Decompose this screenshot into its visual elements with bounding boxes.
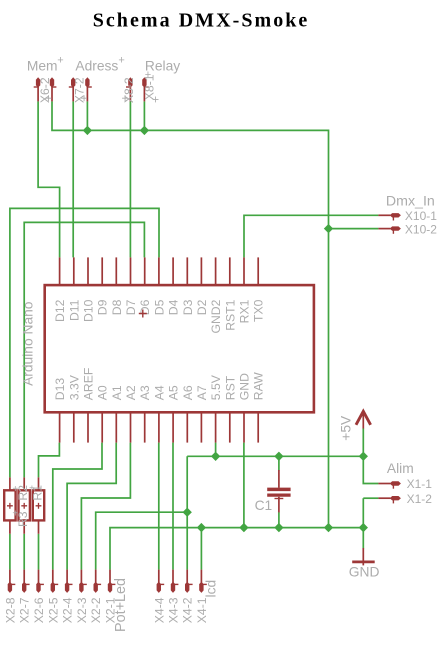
connector pin X2-6 <box>36 570 44 593</box>
connector pin X4-4 <box>157 570 165 593</box>
wire C1 top lead <box>278 456 280 470</box>
svg-text:D7: D7 <box>124 299 138 315</box>
svg-text:X2-8: X2-8 <box>3 597 17 623</box>
svg-text:Adress: Adress <box>75 58 118 73</box>
svg-text:3.3V: 3.3V <box>67 374 81 400</box>
svg-text:+: + <box>118 95 132 102</box>
connector pin X4-3 <box>171 570 179 593</box>
svg-text:X1-2: X1-2 <box>407 492 433 506</box>
svg-text:+5V: +5V <box>338 415 353 441</box>
wire X10-2 to rail <box>329 228 379 230</box>
wire R3 bottom to X2-8 <box>9 534 11 570</box>
Arduino Nano top pins <box>60 257 259 285</box>
svg-text:X2-2: X2-2 <box>89 597 103 623</box>
svg-text:X4-3: X4-3 <box>167 597 181 623</box>
svg-text:+: + <box>57 54 63 66</box>
junction right vertical-rail <box>324 523 333 532</box>
svg-text:X10-1: X10-1 <box>405 209 437 223</box>
svg-text:Mem: Mem <box>27 58 58 73</box>
svg-text:X2-6: X2-6 <box>32 597 46 623</box>
connector pin X2-8 <box>8 570 16 593</box>
svg-text:AREF: AREF <box>82 368 96 401</box>
svg-text:GND: GND <box>349 564 380 579</box>
svg-text:RX1: RX1 <box>238 299 252 323</box>
connector pin X2-5 <box>51 570 59 593</box>
resistor R1 <box>33 477 44 533</box>
Arduino Nano bottom pin labels <box>53 368 266 401</box>
wire 5.5V pin to +5V line <box>215 443 217 457</box>
junction rail-X8-1 <box>140 126 149 135</box>
junction C1 top <box>274 452 283 461</box>
svg-text:X4-4: X4-4 <box>152 597 166 623</box>
svg-text:5.5V: 5.5V <box>209 374 223 400</box>
wire C1 bottom lead <box>278 512 280 527</box>
resistor R3 <box>4 477 15 533</box>
wire R3 to D5 <box>10 208 159 477</box>
connector pin X8-1 <box>142 77 146 101</box>
connector pin X4-2 <box>185 570 193 593</box>
connector pin X7-1 <box>71 77 75 101</box>
svg-text:X2-7: X2-7 <box>18 597 32 623</box>
connector pin X1-1 <box>378 481 401 488</box>
Arduino Nano bottom pins <box>60 412 259 442</box>
svg-text:GND: GND <box>238 373 252 400</box>
svg-text:+: + <box>12 484 18 495</box>
connector pin X2-3 <box>79 570 87 593</box>
svg-text:A5: A5 <box>167 385 181 400</box>
svg-text:A7: A7 <box>195 385 209 400</box>
svg-text:D9: D9 <box>96 299 110 315</box>
wire D13 to R1 <box>39 443 60 478</box>
connector pin X10-2 <box>378 226 401 233</box>
wire X8-1 to rail <box>143 101 145 130</box>
svg-text:+: + <box>149 96 163 103</box>
svg-text:X2-3: X2-3 <box>75 597 89 623</box>
svg-text:X4-1: X4-1 <box>195 597 209 623</box>
op-amp U1 Arduino Nano body <box>45 285 314 412</box>
wire R2 to D6 <box>24 222 144 477</box>
connector pin X2-7 <box>22 570 30 593</box>
svg-text:RST: RST <box>223 375 237 400</box>
wire +5V to X1-1 <box>363 456 378 483</box>
junction rail-Adress2 <box>83 126 92 135</box>
connector pin X2-1 <box>108 570 116 593</box>
svg-text:A3: A3 <box>138 385 152 400</box>
wire +5V column to X4-2 <box>186 456 188 569</box>
svg-text:X2-4: X2-4 <box>61 597 75 623</box>
svg-text:+: + <box>12 509 18 520</box>
svg-text:RAW: RAW <box>252 372 266 400</box>
svg-text:D11: D11 <box>67 299 81 321</box>
svg-text:A0: A0 <box>96 385 110 400</box>
svg-text:A6: A6 <box>181 385 195 400</box>
connector pin X10-1 <box>378 213 401 220</box>
svg-text:C1: C1 <box>255 498 273 513</box>
connector pin X4-1 <box>199 570 207 593</box>
wire A5 to X4-3 <box>172 443 174 570</box>
junction X10-2 <box>324 224 333 233</box>
+5V supply symbol <box>356 411 371 428</box>
svg-text:TX0: TX0 <box>252 299 266 322</box>
wire GND pin to bottom rail <box>243 443 245 528</box>
wire RX1 to X10-1 <box>244 215 378 257</box>
Arduino Nano top pin labels <box>53 299 266 333</box>
junction GND pin <box>239 523 248 532</box>
junction +5V <box>359 452 368 461</box>
connector pin X2-2 <box>94 570 102 593</box>
svg-text:D2: D2 <box>195 299 209 315</box>
wire Adress pin2 to rail <box>86 101 88 130</box>
svg-text:D5: D5 <box>152 299 166 315</box>
wire Mem pin1 to D12 <box>38 101 60 257</box>
svg-text:D10: D10 <box>82 299 96 322</box>
wire X2-2 to +5V column <box>96 512 188 569</box>
connector pin X6-2 <box>50 77 54 101</box>
svg-text:Alim: Alim <box>387 461 414 476</box>
connector pin X6-1 <box>36 77 40 101</box>
svg-text:Arduino Nano: Arduino Nano <box>20 301 35 386</box>
wire X1-2 <box>363 497 378 499</box>
wire GND rail (top + right vertical) <box>52 101 329 527</box>
wire X1-2 down to rail <box>362 498 364 527</box>
svg-text:D13: D13 <box>53 378 67 401</box>
wire R2 bottom to X2-7 <box>23 534 25 570</box>
connector pin X8-2 <box>128 77 132 101</box>
wire X8-2 to D7 <box>129 101 131 257</box>
svg-text:Pot+Led: Pot+Led <box>113 578 129 632</box>
connector pin X2-4 <box>65 570 73 593</box>
svg-text:D8: D8 <box>110 299 124 315</box>
wire +5V horizontal <box>187 455 363 457</box>
junction X2-2/X4-2 <box>183 508 192 517</box>
wire A0 to X2-5 <box>53 443 102 570</box>
wire X4-1 to bottom rail <box>200 528 202 570</box>
junction X4-1 <box>197 523 206 532</box>
svg-text:RST1: RST1 <box>223 299 237 330</box>
junction X1-2/GND <box>359 523 368 532</box>
svg-text:X1-1: X1-1 <box>407 477 433 491</box>
svg-text:+: + <box>118 54 124 66</box>
svg-text:D4: D4 <box>167 299 181 315</box>
wire A4 to X4-4 <box>158 443 160 570</box>
svg-text:lcd: lcd <box>204 580 219 598</box>
junction C1 bottom <box>274 523 283 532</box>
svg-text:X4-2: X4-2 <box>181 597 195 623</box>
svg-text:Dmx_In: Dmx_In <box>386 193 435 209</box>
wire A2 to X2-3 <box>81 443 130 570</box>
svg-text:A1: A1 <box>110 385 124 400</box>
svg-text:+: + <box>77 95 91 102</box>
wire GND bottom rail from X2-1 <box>110 528 363 570</box>
svg-text:+: + <box>29 484 35 495</box>
wire Adress pin1 to D11 <box>72 101 74 257</box>
svg-text:+: + <box>42 95 56 102</box>
svg-text:D12: D12 <box>53 299 67 322</box>
svg-text:Schema DMX-Smoke: Schema DMX-Smoke <box>93 9 308 31</box>
resistor R2 <box>19 477 30 533</box>
junction 5.5V <box>211 452 220 461</box>
ground symbol <box>352 548 375 565</box>
wire A1 to X2-4 <box>67 443 116 570</box>
svg-text:A4: A4 <box>152 385 166 400</box>
svg-text:A2: A2 <box>124 385 138 400</box>
connector pin X1-2 <box>378 496 401 503</box>
wire R1 bottom to X2-6 <box>38 534 40 570</box>
svg-text:X10-2: X10-2 <box>405 222 437 236</box>
svg-text:GND2: GND2 <box>209 299 223 333</box>
connector pin X7-2 <box>85 77 89 101</box>
origin cross on D6 <box>139 310 147 318</box>
capacitor C1 <box>267 470 290 512</box>
svg-text:D3: D3 <box>181 299 195 315</box>
svg-text:X2-5: X2-5 <box>46 597 60 623</box>
wire to +5V symbol <box>362 428 364 456</box>
wire rail to GND symbol <box>362 528 364 549</box>
